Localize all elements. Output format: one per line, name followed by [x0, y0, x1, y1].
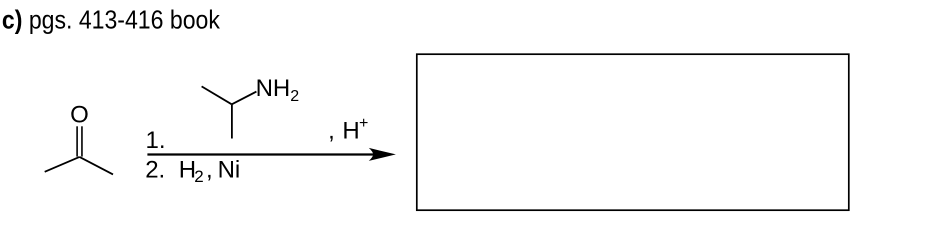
svg-text:c) pgs. 413-416 book: c) pgs. 413-416 book	[2, 4, 221, 34]
svg-text:O: O	[70, 101, 89, 128]
svg-text:1.: 1.	[146, 127, 166, 154]
svg-text:NH2: NH2	[256, 75, 300, 105]
svg-text:,H+: ,H+	[328, 115, 368, 145]
svg-text:2.H2,Ni: 2.H2,Ni	[145, 157, 240, 186]
